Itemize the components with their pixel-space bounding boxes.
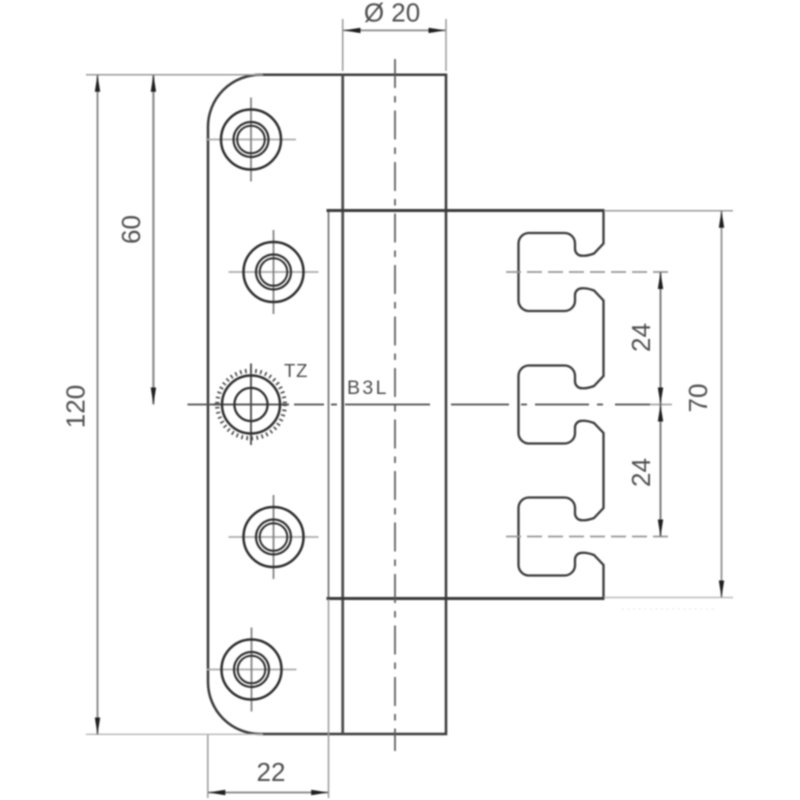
dim d20 extension lines (342, 19, 344, 71)
dim 24 lower line (660, 405, 662, 537)
hole centerline cross (206, 139, 296, 141)
hole countersink circle (234, 652, 269, 687)
svg-text:22: 22 (257, 757, 286, 787)
dim 120 extension lines (86, 74, 263, 76)
svg-text:24: 24 (626, 458, 656, 487)
dim 22 line (208, 792, 329, 794)
hole bore circle (238, 656, 266, 684)
hole outer circle (221, 110, 281, 170)
lug 1 center dashed line (506, 271, 668, 273)
hole outer circle (244, 242, 304, 302)
door-leaf plate outline (208, 75, 446, 734)
hole bore circle (260, 258, 288, 286)
TZ hole inner circle (234, 388, 267, 421)
hole centerline cross (229, 271, 319, 273)
TZ hole vertical centerline (250, 364, 252, 446)
svg-text:TZ: TZ (284, 360, 308, 381)
knuckle left thin edge (328, 211, 330, 600)
main horizontal center line (188, 404, 651, 406)
svg-text:70: 70 (683, 384, 713, 413)
svg-text:24: 24 (626, 323, 656, 352)
svg-text:60: 60 (116, 215, 146, 244)
hole bore circle (237, 126, 265, 154)
hole countersink circle (234, 122, 269, 157)
frame-leaf top edge (327, 209, 605, 212)
svg-text:120: 120 (61, 385, 91, 428)
hole countersink circle (256, 255, 291, 290)
lug 3 center dashed line (506, 536, 668, 538)
svg-text:B3L: B3L (347, 377, 389, 399)
barrel axis dashed line (394, 59, 396, 751)
TZ hole serrated ring (217, 371, 285, 439)
dim d20 line (343, 29, 446, 31)
dim 60 line (152, 75, 154, 405)
dim 70 extension lines (604, 210, 733, 212)
TZ hole outer circle (222, 376, 280, 434)
hole centerline cross (207, 669, 297, 671)
frame-leaf bottom edge (327, 597, 605, 600)
hole countersink circle (256, 520, 291, 555)
hole outer circle (222, 640, 282, 700)
hole centerline cross (229, 536, 319, 538)
dim 120 line (97, 75, 99, 735)
dim 22 extension lines (207, 735, 209, 798)
TZ hole horizontal centerline (213, 404, 289, 406)
frame plate right edge with lug cutouts (519, 211, 604, 600)
hole bore circle (260, 523, 288, 551)
svg-text:Ø 20: Ø 20 (364, 0, 420, 28)
barrel left edge (341, 75, 344, 734)
dim 24 upper line (660, 272, 662, 405)
hole outer circle (244, 507, 304, 567)
dim 70 line (721, 211, 723, 598)
faint hidden line below frame leaf (622, 608, 715, 610)
